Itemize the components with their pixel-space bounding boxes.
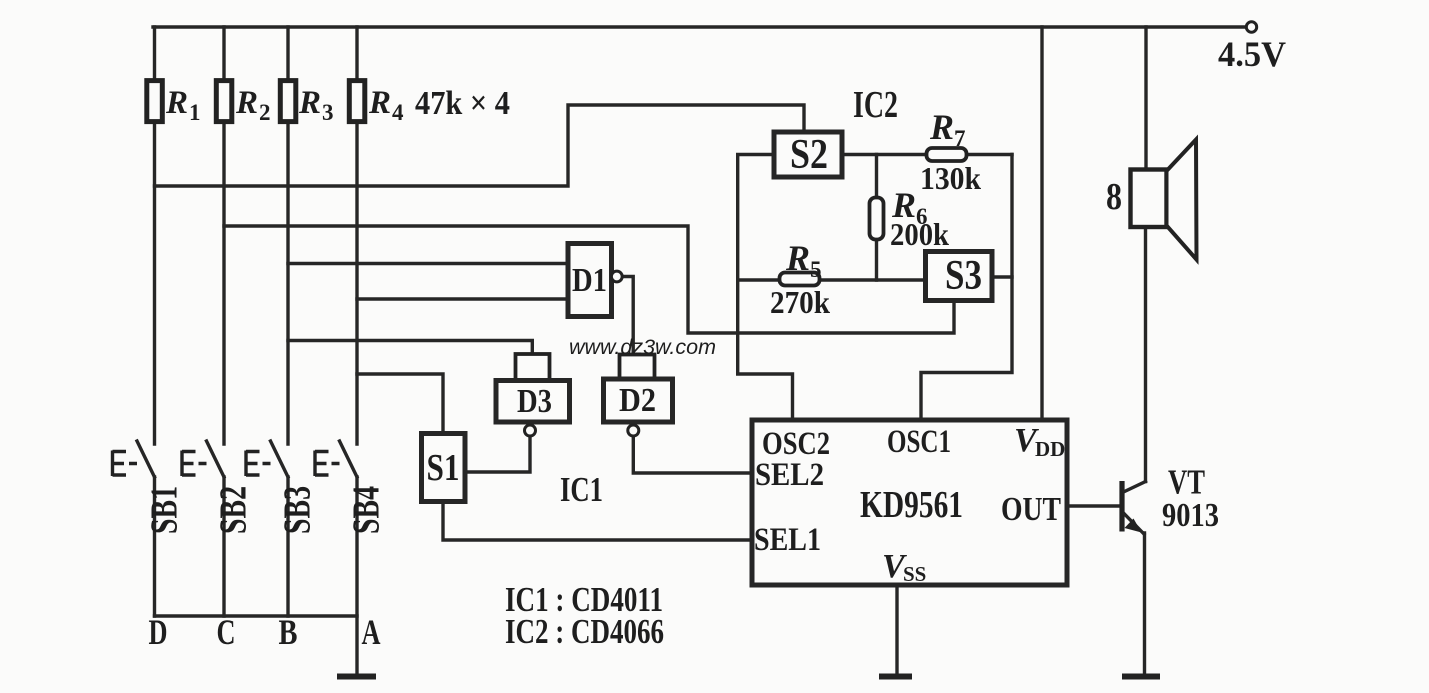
svg-text:SEL1: SEL1 bbox=[754, 522, 821, 558]
svg-text:8: 8 bbox=[1106, 176, 1122, 218]
label: R1 value bbox=[165, 85, 201, 125]
svg-text:5: 5 bbox=[810, 257, 822, 282]
transistor Q1 VT 9013 NPN bbox=[1122, 481, 1146, 534]
ground: node A ground bar bbox=[337, 674, 376, 680]
label: 4.5V supply bbox=[1218, 34, 1286, 74]
wire: node B bus to D3 input box bbox=[288, 341, 532, 354]
svg-text:4: 4 bbox=[392, 100, 404, 125]
wire: R4 branch vertical (supply to SB4, node A) bbox=[355, 27, 358, 444]
wire: node D bus to S2 input (y=186 then up and over to S2 top) bbox=[155, 105, 805, 186]
label: R3 value bbox=[298, 85, 334, 125]
wire: D1 output to D2 input box bbox=[623, 277, 634, 354]
NAND gate D3 input tie box bbox=[516, 354, 550, 380]
switch SB2 pushbutton bbox=[182, 441, 224, 477]
NAND gate D3 bbox=[496, 381, 570, 437]
svg-text:R: R bbox=[235, 85, 258, 121]
svg-text:SEL2: SEL2 bbox=[755, 457, 824, 493]
svg-text:200k: 200k bbox=[890, 216, 949, 252]
wire: R1 branch vertical (supply to SB1) bbox=[153, 27, 156, 444]
svg-text:A: A bbox=[362, 612, 381, 652]
wire: SB3 lower lead to bottom bus bbox=[286, 477, 289, 616]
wire: speaker vertical from supply rail bbox=[1144, 27, 1147, 170]
resistor R1 bbox=[147, 81, 163, 122]
svg-text:VT: VT bbox=[1168, 463, 1205, 502]
wire: node A bus to S1 top pin bbox=[357, 374, 443, 434]
wire: right vertical from R7 to OSC1 bbox=[921, 155, 1012, 421]
node D bbox=[149, 612, 168, 652]
switch SB4 pushbutton bbox=[315, 441, 357, 477]
wire: S2 left pin to left vertical and down to OSC2 bbox=[738, 155, 793, 421]
svg-text:R: R bbox=[298, 85, 321, 121]
svg-text:IC1: IC1 bbox=[560, 470, 603, 509]
node B bbox=[279, 612, 298, 652]
svg-text:D: D bbox=[149, 612, 168, 652]
label: IC2 bbox=[853, 84, 898, 126]
svg-text:SB1: SB1 bbox=[144, 486, 186, 534]
svg-text:SS: SS bbox=[903, 562, 926, 586]
svg-text:DD: DD bbox=[1035, 437, 1065, 461]
watermark bbox=[569, 336, 716, 359]
label: SB2 bbox=[213, 486, 255, 534]
svg-text:2: 2 bbox=[259, 100, 271, 125]
wire: SB1 lower lead to bottom bus bbox=[153, 477, 156, 616]
svg-text:D2: D2 bbox=[619, 382, 656, 419]
svg-text:7: 7 bbox=[954, 126, 966, 151]
label: R4 value bbox=[368, 85, 404, 125]
svg-text:270k: 270k bbox=[770, 284, 830, 320]
NAND gate D1 bbox=[568, 244, 622, 317]
wire: node C bus to S3 control (y=226, down at x=688, right to S3 bottom pin) bbox=[224, 226, 954, 333]
svg-text:4.5V: 4.5V bbox=[1218, 34, 1286, 74]
svg-text:R: R bbox=[929, 107, 954, 147]
label: speaker 8 ohm bbox=[1106, 176, 1122, 218]
svg-text:B: B bbox=[279, 612, 298, 652]
svg-text:R: R bbox=[165, 85, 188, 121]
NAND gate D2 input tie box bbox=[620, 355, 655, 380]
wire: D3 output to S1 right pin bbox=[465, 436, 530, 472]
resistor R7 bbox=[927, 148, 967, 161]
svg-text:SB3: SB3 bbox=[277, 486, 319, 534]
wire: R6 vertical branch bbox=[875, 155, 878, 281]
svg-text:3: 3 bbox=[322, 100, 334, 125]
wire: speaker bottom to transistor collector bbox=[1144, 228, 1147, 482]
svg-text:1: 1 bbox=[189, 100, 201, 125]
wire: transistor emitter to ground bbox=[1143, 533, 1146, 675]
svg-text:OUT: OUT bbox=[1001, 491, 1061, 528]
ground: VSS ground bar bbox=[879, 674, 912, 680]
switch SB3 pushbutton bbox=[246, 441, 288, 477]
svg-text:S2: S2 bbox=[790, 132, 828, 178]
label: R2 value bbox=[235, 85, 271, 125]
resistor R2 bbox=[216, 81, 232, 122]
wire: VDD vertical from supply rail to KD9561 bbox=[1040, 27, 1043, 420]
svg-text:R: R bbox=[368, 85, 391, 121]
label: SB1 bbox=[144, 486, 186, 534]
svg-text:9013: 9013 bbox=[1162, 497, 1219, 534]
wire: D2 output to KD9561 SEL2 bbox=[633, 436, 752, 473]
node C bbox=[217, 612, 236, 652]
analog switch S2 (IC2 section) bbox=[774, 132, 842, 178]
label: 47k x 4 value bbox=[415, 85, 510, 122]
label: R6 value bbox=[890, 185, 949, 252]
wire: SB4 lower lead to bottom bus and ground bbox=[355, 477, 358, 675]
wire: node A bus to D1 lower input bbox=[357, 297, 568, 300]
wire: R2 branch vertical (supply to SB2) bbox=[222, 27, 225, 444]
wire: +4.5V top supply rail bbox=[153, 25, 1246, 28]
wire: R3 branch vertical (supply to SB3) bbox=[286, 27, 289, 444]
analog switch S3 (IC2 section) bbox=[926, 252, 993, 301]
IC U1 KD9561 sound generator bbox=[752, 420, 1067, 586]
svg-text:KD9561: KD9561 bbox=[860, 484, 963, 526]
svg-text:SB2: SB2 bbox=[213, 486, 255, 534]
terminal: 4.5V supply terminal bbox=[1246, 22, 1256, 32]
label: R7 value bbox=[920, 107, 981, 196]
wire: SB2 lower lead to bottom bus bbox=[222, 477, 225, 616]
wire: KD9561 OUT to transistor base bbox=[1067, 504, 1120, 507]
NAND gate D2 bbox=[604, 379, 673, 436]
wire: S3 right pin to right vertical bbox=[992, 275, 1012, 278]
label: SB4 bbox=[346, 486, 388, 534]
svg-text:www.dz3w.com: www.dz3w.com bbox=[569, 336, 716, 359]
resistor R6 bbox=[870, 198, 884, 240]
ground: emitter ground bar bbox=[1122, 674, 1160, 680]
svg-text:OSC1: OSC1 bbox=[887, 424, 951, 460]
svg-text:SB4: SB4 bbox=[346, 486, 388, 534]
switch SB1 pushbutton bbox=[113, 441, 155, 477]
wire: KD9561 VSS pin to ground bbox=[895, 585, 898, 675]
speaker 8 ohm bbox=[1131, 140, 1197, 260]
svg-text:47k × 4: 47k × 4 bbox=[415, 85, 510, 122]
wire: S2 right pin through R7 line to right vertical bbox=[842, 153, 1012, 156]
analog switch S1 (IC2 section) bbox=[422, 434, 466, 502]
svg-text:130k: 130k bbox=[920, 160, 981, 196]
wire: S1 bottom pin to KD9561 SEL1 bbox=[443, 502, 752, 541]
node A bbox=[362, 612, 381, 652]
label: IC1 bbox=[560, 470, 603, 509]
wire: node B bus to D1 upper input bbox=[288, 262, 568, 265]
wire: R5 line from left vertical to S3 left pin bbox=[738, 278, 925, 281]
svg-text:R: R bbox=[785, 238, 810, 278]
resistor R4 bbox=[349, 81, 365, 122]
label: IC1 CD4011 annotation bbox=[505, 580, 663, 619]
svg-text:S3: S3 bbox=[945, 253, 982, 299]
wire: bottom bus D-C-B-A bbox=[155, 614, 358, 617]
label: SB3 bbox=[277, 486, 319, 534]
svg-text:D3: D3 bbox=[517, 383, 552, 420]
resistor R3 bbox=[280, 81, 296, 122]
label: R5 value bbox=[770, 238, 830, 320]
label: VT 9013 bbox=[1162, 463, 1219, 535]
svg-text:D1: D1 bbox=[572, 262, 607, 299]
resistor R5 bbox=[780, 273, 820, 286]
svg-text:C: C bbox=[217, 612, 236, 652]
svg-text:S1: S1 bbox=[427, 447, 460, 489]
svg-text:IC2 : CD4066: IC2 : CD4066 bbox=[505, 612, 664, 651]
svg-text:IC2: IC2 bbox=[853, 84, 898, 126]
label: IC2 CD4066 annotation bbox=[505, 612, 664, 651]
